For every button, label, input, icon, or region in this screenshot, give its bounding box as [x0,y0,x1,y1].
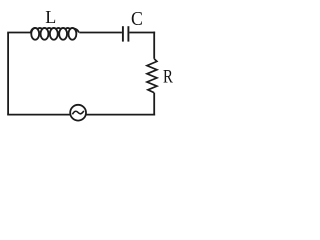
capacitor C plate right [127,26,129,41]
capacitor C plate left [122,26,124,41]
wire left side [7,33,9,115]
wire bottom-right segment [86,114,155,116]
resistor R zigzag [147,59,157,93]
svg-text:L: L [45,7,56,27]
wire top-left segment [7,32,31,34]
svg-text:C: C [131,8,143,30]
AC source sine symbol [72,111,83,114]
wire right lower [153,93,155,116]
wire bottom-left segment [7,114,70,116]
wire top-right segment [129,32,155,34]
inductor L [31,28,79,40]
AC source circle [70,105,86,121]
wire top-middle segment [79,32,122,34]
svg-text:R: R [163,66,173,87]
wire right upper [153,32,155,59]
